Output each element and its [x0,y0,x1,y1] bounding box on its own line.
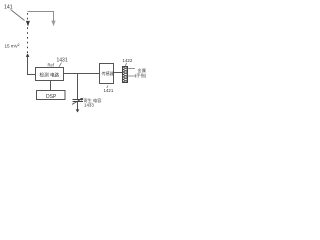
ground arrow [76,109,80,112]
box 1421 sensor [100,64,114,84]
box DSP [37,91,66,100]
wire box to DSP [50,80,52,91]
svg-text:1431: 1431 [57,58,68,64]
wire top elbow (field line) [28,12,54,22]
box 1431 detection circuit [36,68,64,81]
svg-text:1433: 1433 [84,103,94,108]
electrode 1422 hatched [123,67,128,83]
svg-text:141: 141 [4,5,13,11]
leader arrow from 141 [11,10,25,21]
svg-text:Ref: Ref [48,62,55,67]
svg-text:1422: 1422 [123,58,133,63]
svg-text:1421: 1421 [104,88,114,93]
wire box to electrode [114,72,123,74]
leader 1421 [107,86,108,89]
svg-text:传感器: 传感器 [102,70,114,76]
arrowhead down at right elbow end [51,21,55,27]
callout line lower [128,75,136,77]
callout line upper [128,68,135,70]
svg-text:检测 电路: 检测 电路 [40,72,60,79]
arrowhead up on field line [26,53,30,57]
leader 1431 [59,63,62,67]
wire main horizontal [64,73,100,75]
wire junction drop to capacitor [77,74,79,100]
wire from field line into left box [28,57,36,75]
svg-text:DSP: DSP [46,94,57,100]
wire dotted field line [27,13,29,53]
capacitor C parasitic 1433 [73,99,84,101]
leader 1422 [125,63,126,67]
svg-text:15 mV2: 15 mV2 [5,43,20,49]
svg-text:(手指): (手指) [135,72,147,79]
variable arrow across capacitor [72,99,82,105]
wire capacitor to ground [77,102,79,110]
